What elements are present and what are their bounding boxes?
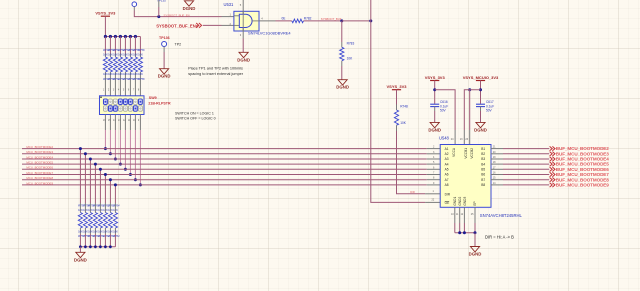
- svg-text:VCCB1: VCCB1: [464, 148, 468, 159]
- svg-text:VSYS_3V3: VSYS_3V3: [425, 75, 446, 80]
- resistor R764 pull-down: [114, 185, 116, 203]
- svg-text:3: 3: [113, 89, 115, 92]
- wire: [503, 168, 549, 170]
- svg-text:TP135: TP135: [157, 0, 166, 2]
- svg-text:R756: R756: [138, 48, 145, 52]
- svg-text:23: 23: [465, 138, 468, 141]
- pin EP stub: [474, 207, 476, 223]
- resistor R751 pull-up: [114, 37, 116, 54]
- svg-text:B1: B1: [481, 147, 485, 151]
- svg-text:3: 3: [240, 33, 242, 37]
- svg-text:VCCB2: VCCB2: [470, 148, 474, 159]
- wire: [503, 179, 549, 181]
- svg-text:DGND: DGND: [74, 257, 87, 262]
- svg-text:TP2: TP2: [175, 43, 182, 47]
- wire stub pin 1: [222, 16, 234, 18]
- wire switch pin 13 to SYSBOOT line 3: [119, 115, 121, 131]
- wire: [434, 81, 436, 104]
- resistor R750 pull-up: [109, 37, 111, 54]
- svg-text:SN74AVCH8T245RHL: SN74AVCH8T245RHL: [480, 213, 523, 218]
- wire net SOC bootmode line 8: [22, 184, 427, 186]
- svg-text:DGND: DGND: [469, 252, 482, 257]
- resistor R752 pull-up: [119, 37, 121, 54]
- svg-text:SYSBOOT_BUF_EN: SYSBOOT_BUF_EN: [164, 13, 190, 17]
- svg-text:DGND: DGND: [237, 57, 250, 62]
- wire stub pin 2: [222, 24, 234, 26]
- wire: [503, 174, 549, 176]
- ground DGND: [160, 69, 169, 74]
- wire switch pin 15 to SYSBOOT line 1: [109, 115, 111, 131]
- wire stub A7: [427, 179, 441, 181]
- svg-text:10: 10: [451, 213, 454, 216]
- svg-text:50V: 50V: [486, 109, 493, 113]
- svg-text:DGND: DGND: [158, 74, 171, 79]
- switch element 5: [124, 106, 128, 111]
- wire stub B7: [491, 179, 503, 181]
- node junction gnd col5: [99, 245, 102, 248]
- resistor R755 pull-up: [134, 37, 136, 54]
- port BUF_MCU_BOOTMODE7: [550, 172, 555, 176]
- svg-text:B6: B6: [481, 173, 485, 177]
- wire DIR: [397, 131, 426, 194]
- resistor R760 pull-down: [94, 164, 96, 203]
- node junction gnd col2: [84, 245, 87, 248]
- wire to VCCA: [435, 90, 455, 130]
- svg-text:1: 1: [103, 89, 105, 92]
- node junction gnd col6: [104, 245, 107, 248]
- wire net SOC bootmode line 4: [22, 163, 427, 165]
- port BUF_MCU_BOOTMODE5: [550, 162, 555, 166]
- switch element 6: [129, 106, 133, 111]
- wire: [503, 158, 549, 160]
- svg-text:1: 1: [433, 190, 435, 193]
- resistor R763 pull-down: [109, 180, 111, 203]
- switch element 3: [114, 99, 118, 104]
- wire stub A5: [427, 168, 441, 170]
- svg-text:A4: A4: [445, 162, 449, 166]
- node junction gnd col1: [79, 245, 82, 248]
- pin 5 wire (top): [242, 0, 244, 14]
- svg-text:R783: R783: [347, 42, 355, 46]
- port BUF_MCU_BOOTMODE2: [550, 146, 555, 150]
- svg-text:10K: 10K: [138, 52, 143, 56]
- svg-text:EP: EP: [473, 201, 477, 205]
- wire stub A4: [427, 163, 441, 165]
- wire: [79, 247, 81, 253]
- capacitor C616 0.1uF 50V: [430, 103, 439, 105]
- svg-text:VSYS_3V3: VSYS_3V3: [95, 11, 116, 16]
- svg-text:10K: 10K: [347, 56, 354, 60]
- svg-text:Place TP1 and TP2 with 100mils: Place TP1 and TP2 with 100mils: [188, 66, 243, 70]
- svg-text:11: 11: [456, 213, 459, 216]
- svg-text:DGND: DGND: [336, 85, 349, 90]
- svg-text:R756: R756: [138, 77, 145, 81]
- svg-text:24: 24: [451, 138, 454, 141]
- node junction gnd col4: [94, 245, 97, 248]
- wire gnd bus: [455, 232, 475, 234]
- svg-text:4: 4: [118, 89, 120, 92]
- svg-text:VSYS_MCUIO_3V3: VSYS_MCUIO_3V3: [463, 75, 499, 80]
- ground DGND: [184, 1, 193, 6]
- svg-text:MCU_BOOTMODE5: MCU_BOOTMODE5: [26, 161, 53, 165]
- wire to VCCB1 VCCB2: [464, 90, 480, 130]
- svg-text:MCU_BOOTMODE8: MCU_BOOTMODE8: [26, 176, 53, 180]
- wire top bus: [105, 36, 140, 38]
- svg-text:10K: 10K: [113, 230, 118, 234]
- wire: [133, 7, 135, 11]
- svg-text:DGND: DGND: [183, 6, 196, 11]
- svg-text:MCU_BOOTMODE9: MCU_BOOTMODE9: [26, 181, 53, 185]
- svg-text:R764: R764: [113, 204, 120, 208]
- node junction gnd col7: [109, 245, 112, 248]
- svg-text:VCCA: VCCA: [452, 147, 456, 157]
- port BUF_MCU_BOOTMODE6: [550, 167, 555, 171]
- wire stub A6: [427, 174, 441, 176]
- resistor R754 pull-up: [129, 37, 131, 54]
- svg-text:A8: A8: [445, 183, 449, 187]
- svg-text:B8: B8: [481, 183, 485, 187]
- svg-text:SWITCH ON = LOGIC 1: SWITCH ON = LOGIC 1: [175, 112, 214, 116]
- svg-text:1: 1: [230, 12, 232, 16]
- svg-text:R748: R748: [400, 105, 408, 109]
- wire net SOC bootmode line 7: [22, 179, 427, 181]
- op-amp U531 AND gate body: [234, 11, 259, 31]
- power flag VSYS_3V3: [101, 15, 110, 17]
- wire: [104, 16, 106, 36]
- node junction: [157, 15, 160, 18]
- svg-text:MCU_BOOTMODE2: MCU_BOOTMODE2: [26, 145, 53, 149]
- port BUF_MCU_BOOTMODE4: [550, 157, 555, 161]
- wire switch pin 11 to SYSBOOT line 5: [129, 115, 131, 131]
- svg-text:GND3: GND3: [463, 197, 467, 206]
- AND gate shape: [234, 15, 239, 17]
- port BUF_MCU_BOOTMODE8: [550, 178, 555, 182]
- wire: [503, 184, 549, 186]
- svg-text:A5: A5: [445, 168, 449, 172]
- switch element 7: [134, 99, 138, 104]
- wire net SOC bootmode line 5: [22, 168, 427, 170]
- wire stub A2: [427, 153, 441, 155]
- wire stub B5: [491, 168, 503, 170]
- power flag VSYS_3V3 (R748): [392, 89, 401, 91]
- pin 3 wire (bottom): [242, 28, 244, 39]
- svg-text:10K: 10K: [400, 121, 407, 125]
- ground DGND: [470, 247, 479, 252]
- wire switch pin 9 to SYSBOOT line 7: [139, 115, 141, 131]
- svg-text:A1: A1: [445, 147, 449, 151]
- svg-text:SYSBOOT_BUF_ENz: SYSBOOT_BUF_ENz: [156, 24, 198, 29]
- node junction: [340, 19, 343, 22]
- svg-text:MCU_BOOTMODE7: MCU_BOOTMODE7: [26, 171, 53, 175]
- wire: [503, 163, 549, 165]
- svg-text:A3: A3: [445, 157, 449, 161]
- switch element 4: [119, 106, 123, 111]
- resistor R757 pull-down: [79, 149, 81, 203]
- svg-text:8: 8: [138, 89, 140, 92]
- svg-text:R782: R782: [304, 17, 312, 21]
- node junction col6: [129, 35, 132, 38]
- wire switch pin 12 to SYSBOOT line 4: [124, 115, 126, 131]
- svg-text:7: 7: [133, 89, 135, 92]
- wire: [480, 81, 482, 104]
- wire OE enable line: [371, 0, 425, 202]
- wire net SOC bootmode line 6: [22, 174, 427, 176]
- svg-text:B3: B3: [481, 157, 485, 161]
- svg-text:5: 5: [240, 3, 242, 7]
- wire stub B4: [491, 163, 503, 165]
- svg-text:MCU_BOOTMODE3: MCU_BOOTMODE3: [26, 150, 53, 154]
- svg-text:B5: B5: [481, 168, 485, 172]
- wire: [163, 47, 165, 53]
- wire switch pin 10 to SYSBOOT line 6: [134, 115, 136, 131]
- svg-text:GND1: GND1: [453, 197, 457, 206]
- wire GND pins: [454, 207, 456, 223]
- svg-text:SWITCH OFF = LOGIC 0: SWITCH OFF = LOGIC 0: [175, 117, 216, 121]
- svg-text:13: 13: [460, 138, 463, 141]
- svg-text:B7: B7: [481, 178, 485, 182]
- wire: [503, 153, 549, 155]
- svg-text:spacing to insert external jum: spacing to insert external jumper: [188, 72, 244, 76]
- capacitor C617 0.1uF 50V: [476, 103, 485, 105]
- switch element 2: [109, 99, 113, 104]
- ground DGND below gate: [239, 52, 248, 57]
- power flag VSYS_MCUIO_3V3: [476, 80, 485, 82]
- port BUF_MCU_BOOTMODE9: [550, 183, 555, 187]
- svg-text:2: 2: [108, 89, 110, 92]
- wire stub B1: [491, 148, 503, 150]
- wire stub B2: [491, 153, 503, 155]
- node junction col5: [124, 35, 127, 38]
- switch SW9 21B-RLPSTR: [100, 96, 145, 115]
- svg-text:MCU_BOOTMODE6: MCU_BOOTMODE6: [26, 166, 53, 170]
- resistor R761 pull-down: [99, 169, 101, 203]
- wire switch pin 16 to SYSBOOT line 0: [104, 115, 106, 131]
- wire: [503, 148, 549, 150]
- svg-text:4: 4: [261, 17, 263, 21]
- svg-text:A2: A2: [445, 152, 449, 156]
- svg-text:A7: A7: [445, 178, 449, 182]
- svg-text:GND2: GND2: [458, 197, 462, 206]
- resistor R748 10K: [396, 90, 398, 105]
- resistor R749 pull-up: [104, 37, 106, 54]
- switch element 1: [104, 106, 108, 111]
- node junction: [369, 19, 372, 22]
- port BUF_MCU_BOOTMODE3: [550, 152, 555, 156]
- svg-text:TP136: TP136: [159, 36, 170, 40]
- wire: [304, 20, 342, 22]
- svg-text:0E: 0E: [282, 17, 286, 21]
- svg-text:50V: 50V: [440, 109, 447, 113]
- node junction gnd col3: [89, 245, 92, 248]
- node junction col7: [134, 35, 137, 38]
- svg-text:DIR: DIR: [410, 190, 415, 194]
- svg-text:SYSBOOT_BUF: SYSBOOT_BUF: [321, 17, 342, 21]
- svg-text:DGND: DGND: [474, 127, 487, 132]
- wire stub A8: [427, 184, 441, 186]
- wire stub A3: [427, 158, 441, 160]
- svg-text:R764: R764: [113, 234, 120, 238]
- test point TP1: [132, 2, 137, 7]
- svg-text:A6: A6: [445, 173, 449, 177]
- wire: [203, 24, 222, 26]
- wire stub B3: [491, 158, 503, 160]
- svg-text:U531: U531: [224, 2, 235, 7]
- wire switch pin 14 to SYSBOOT line 2: [114, 115, 116, 131]
- svg-text:U548: U548: [439, 135, 450, 140]
- resistor R762 pull-down: [104, 175, 106, 204]
- wire gate output: [259, 20, 276, 22]
- ground DGND: [476, 122, 485, 127]
- svg-text:B4: B4: [481, 162, 485, 166]
- wire stub B6: [491, 174, 503, 176]
- node junction col4: [119, 35, 122, 38]
- resistor R753 pull-up: [124, 37, 126, 54]
- resistor R783 10K pulldown: [341, 21, 343, 42]
- svg-text:SW9: SW9: [149, 96, 157, 100]
- wire: [158, 7, 160, 17]
- svg-text:BUF_MCU_BOOTMODE9: BUF_MCU_BOOTMODE9: [556, 183, 609, 188]
- svg-text:10K: 10K: [138, 72, 143, 76]
- svg-text:22: 22: [432, 199, 435, 202]
- svg-text:25: 25: [471, 213, 474, 216]
- svg-text:B2: B2: [481, 152, 485, 156]
- svg-text:DIR = Hi: A -> B: DIR = Hi: A -> B: [485, 235, 514, 240]
- svg-text:5: 5: [123, 89, 125, 92]
- switch element 8: [139, 106, 143, 111]
- ground DGND: [430, 122, 439, 127]
- ground DGND: [76, 252, 85, 257]
- svg-text:6: 6: [128, 89, 130, 92]
- svg-text:9: 9: [138, 119, 140, 122]
- wire net SOC bootmode line 3: [22, 158, 427, 160]
- svg-text:DGND: DGND: [428, 127, 441, 132]
- node junction: [433, 88, 436, 91]
- resistor R759 pull-down: [89, 159, 91, 203]
- wire net SOC bootmode line 2: [22, 153, 427, 155]
- svg-text:DIR: DIR: [445, 192, 451, 196]
- node junction col1: [104, 35, 107, 38]
- wire: [342, 20, 371, 22]
- svg-text:OE: OE: [445, 201, 450, 205]
- node junction col2: [109, 35, 112, 38]
- resistor R756 pull-up: [139, 37, 141, 54]
- wire stub A1: [427, 148, 441, 150]
- resistor R758 pull-down: [84, 154, 86, 203]
- wire net SOC bootmode line 1: [22, 148, 427, 150]
- svg-text:21B-RLPSTR: 21B-RLPSTR: [148, 101, 171, 105]
- power flag VSYS_3V3 (C616): [430, 80, 439, 82]
- wire stub B8: [491, 184, 503, 186]
- svg-text:MCU_BOOTMODE4: MCU_BOOTMODE4: [26, 155, 53, 159]
- node junction col3: [114, 35, 117, 38]
- node junctions: [479, 88, 482, 91]
- svg-text:VSYS_3V3: VSYS_3V3: [386, 84, 407, 89]
- ground DGND: [338, 80, 347, 85]
- svg-text:SN74LVC1G08DBVRE4: SN74LVC1G08DBVRE4: [248, 30, 291, 35]
- svg-text:12: 12: [461, 213, 464, 216]
- wire pulldown common: [80, 246, 115, 248]
